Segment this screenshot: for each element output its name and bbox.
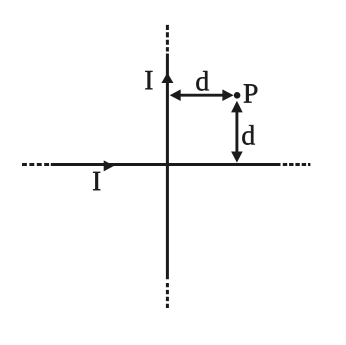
label I (current in vertical wire) bbox=[145, 71, 152, 89]
node P dot bbox=[234, 92, 241, 99]
wire: vertical wire solid segment bbox=[166, 54, 169, 280]
wire: horizontal wire dashed left segment bbox=[22, 163, 49, 166]
current direction arrowhead (up) on vertical wire bbox=[161, 73, 173, 83]
current direction arrowhead (right) on horizontal wire bbox=[104, 160, 115, 171]
dimension arrow d (horizontal, from vertical wire to point P) bbox=[170, 89, 234, 101]
label P bbox=[244, 84, 258, 102]
wire: horizontal wire dashed right segment bbox=[283, 163, 311, 166]
label d (vertical distance) bbox=[242, 125, 255, 145]
wire: vertical wire dashed bottom segment bbox=[166, 283, 169, 308]
dimension arrow d (vertical, from point P to horizontal wire) bbox=[231, 101, 243, 163]
wire: horizontal wire solid segment bbox=[51, 163, 281, 166]
label d (horizontal distance) bbox=[196, 71, 209, 91]
wire: vertical wire dashed top segment bbox=[166, 25, 169, 52]
label I (current in horizontal wire) bbox=[93, 172, 100, 190]
